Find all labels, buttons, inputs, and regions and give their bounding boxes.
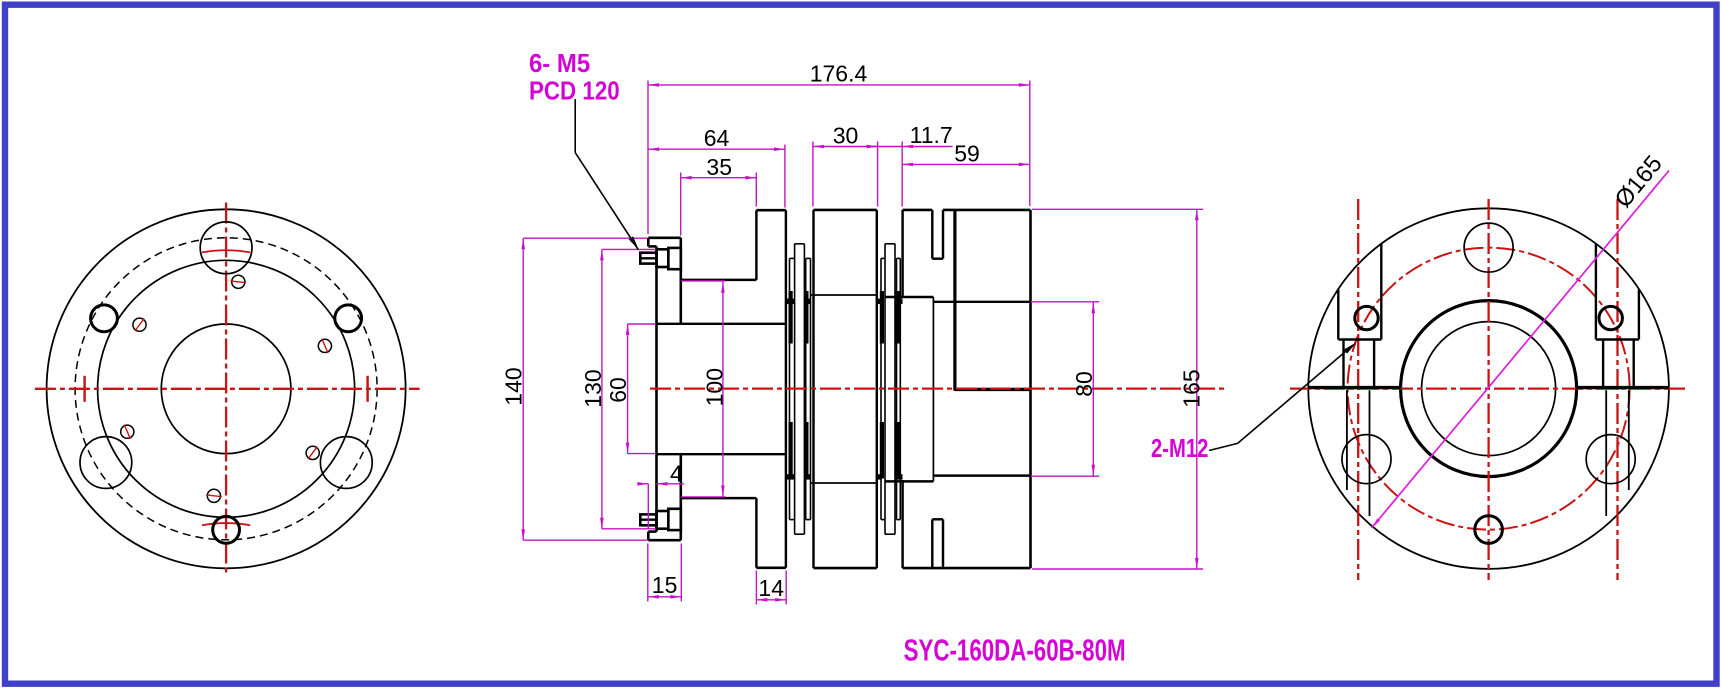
- left view: clearance hole at lower-right: [320, 437, 372, 489]
- callout 6-M5: leader arrowhead: [629, 236, 639, 250]
- middle view: flange right edge lower: [679, 454, 682, 540]
- middle view: left hub body left edge upper: [755, 210, 757, 280]
- middle view: right hub top edge right of slot: [943, 209, 1031, 212]
- left view: red vertical centerline: [225, 203, 227, 576]
- dim 130: arrows: [600, 249, 604, 260]
- left view: red bolt-circle arc at top hole: [202, 250, 250, 252]
- dim 140: bottom extension line: [523, 539, 647, 541]
- middle view: red centerline: [650, 387, 1225, 389]
- right view: red bolt circle: [1348, 248, 1630, 530]
- middle view: right hub bold line at centerline: [955, 388, 1031, 391]
- svg-text:SYC-160DA-60B-80M: SYC-160DA-60B-80M: [904, 633, 1126, 667]
- dim 130: bottom extension line: [602, 528, 656, 530]
- right view: red vertical centerline left: [1357, 199, 1359, 580]
- callout 2-M12: leader tail: [1209, 443, 1238, 450]
- dim 176.4: arrows: [648, 83, 659, 87]
- middle view: right hub bottom slot left wall: [931, 519, 933, 568]
- left view: bore circle: [161, 324, 291, 454]
- middle view: screw notch step bottom: [648, 530, 656, 533]
- middle view: spacer upper step line: [811, 294, 877, 296]
- left view: M5 screw hole at 204 deg: [121, 425, 134, 438]
- svg-text:35: 35: [706, 154, 732, 180]
- dim 80: bottom extension line: [1031, 475, 1099, 477]
- middle view: top M5 screw head slot: [640, 257, 656, 259]
- middle view: right hub top edge left of slot: [903, 209, 933, 212]
- middle view: disc pack 1 strips: [790, 244, 811, 534]
- dim 100: bottom extension line: [681, 496, 726, 498]
- svg-text:4: 4: [670, 461, 683, 487]
- dim 165: arrows: [1195, 209, 1199, 220]
- middle view: right hub bottom slot top: [932, 518, 943, 520]
- left view: red horizontal centerline: [35, 388, 420, 390]
- dim 14: left extension line: [755, 571, 757, 605]
- right view: bore circle: [1422, 322, 1556, 456]
- middle view: flange left edge: [655, 246, 658, 531]
- dim 15: arrows: [648, 595, 659, 599]
- dim 176.4: left extension line: [647, 81, 649, 235]
- dim 60: bottom extension line: [628, 453, 656, 455]
- dim 15: right extension line: [680, 544, 682, 602]
- middle view: right hub top slot right wall: [942, 210, 944, 259]
- right view: hub circle (bold): [1401, 301, 1577, 477]
- middle view: left hub body left edge lower: [755, 498, 757, 568]
- dim 30: left extension line: [812, 142, 814, 207]
- middle view: boss bottom edge (dia 100): [681, 497, 757, 499]
- dim 176.4: dimension line: [648, 84, 1030, 86]
- right view: tapped hole bottom (bold): [1475, 516, 1503, 544]
- middle view: disc pack 2 bolt sections: [877, 299, 881, 304]
- middle view: top M5 screw head: [640, 253, 656, 264]
- left view: tapped hole at left (bold): [91, 305, 118, 332]
- dim 11.7: dimension line with outside arrows: [867, 146, 953, 148]
- svg-text:100: 100: [701, 368, 727, 406]
- right view: right slot drill hole lines below slit: [1628, 390, 1630, 490]
- middle view: top M5 screw body: [668, 248, 681, 269]
- middle view: disc pack 1 clamped bands (bold): [788, 291, 792, 344]
- dim 140: dimension line: [522, 238, 524, 540]
- right view: right clamp slit (bold): [1576, 386, 1669, 389]
- dim 35: left extension line: [680, 173, 682, 236]
- dim 35: dimension line: [681, 177, 757, 179]
- middle view: flange lip left edge bottom: [647, 532, 650, 541]
- right view: red vertical centerline right: [1616, 199, 1618, 580]
- dim 165: bottom extension line: [1032, 568, 1203, 570]
- right view: right slot outline: [1596, 244, 1639, 386]
- right view: outer circle (flange OD): [1308, 208, 1669, 569]
- dim 35: arrows: [681, 176, 692, 180]
- dim 140: top extension line: [523, 237, 647, 239]
- middle view: center spacer left edge: [812, 210, 814, 568]
- middle view: center spacer right edge: [876, 210, 878, 568]
- dim 4: extension line: [647, 484, 649, 529]
- middle view: right hub bore bottom line (dia 80): [933, 474, 1030, 476]
- svg-text:80: 80: [1071, 371, 1097, 397]
- middle view: right hub bore top line (dia 80): [933, 301, 1030, 303]
- left view: outer circle (hub OD): [47, 209, 406, 568]
- left view: M5 screw hole at 264 deg: [207, 489, 220, 502]
- right view: clearance hole lower-right: [1586, 435, 1635, 484]
- left view: red bolt-circle arc at bottom hole: [202, 523, 250, 525]
- left view: clearance hole at top: [200, 222, 252, 274]
- dim 64: arrows: [648, 147, 659, 151]
- left view: M5 screw hole at 144 deg: [133, 318, 146, 331]
- left view: M5 screw hole at 84 deg: [232, 275, 245, 288]
- dim 100: top extension line: [681, 280, 726, 282]
- middle view: disc pack 2 strips: [881, 244, 900, 534]
- middle view: spacer lower step line: [811, 482, 877, 484]
- middle view: disc pack 1 bolt sections: [786, 299, 794, 304]
- right view: clearance hole top: [1464, 223, 1513, 272]
- dim 165: top extension line: [1032, 208, 1203, 210]
- dim 30: dimension line: [813, 146, 878, 148]
- svg-text:64: 64: [704, 125, 730, 151]
- right view: M12 hole in left slot (bold): [1355, 306, 1378, 329]
- middle view: flange right edge upper: [679, 238, 682, 324]
- middle view: disc pack 2 clamped bands (bold): [880, 291, 884, 344]
- dim 30: right extension line: [877, 142, 879, 207]
- middle view: bottom M5 screw head slot: [640, 518, 656, 520]
- middle view: screw notch step top: [648, 245, 656, 248]
- middle view: right hub bottom edge: [903, 567, 1031, 570]
- svg-text:15: 15: [652, 572, 678, 598]
- right view: left slot outline: [1338, 244, 1381, 386]
- middle view: right hub bold clamp vertical: [953, 210, 956, 391]
- middle view: right hub pack-flange top line: [885, 296, 933, 298]
- dim 130: dimension line: [601, 249, 603, 528]
- dim 14: dimension line: [756, 599, 786, 601]
- diameter leader arrowhead: [1372, 518, 1380, 528]
- middle view: left hub body top edge: [756, 209, 786, 212]
- dim 59: dimension line: [902, 163, 1030, 165]
- svg-text:14: 14: [758, 575, 784, 601]
- dim 60: dimension line: [627, 324, 629, 454]
- callout 6-M5: leader diagonal segment: [575, 153, 638, 250]
- svg-text:140: 140: [501, 367, 527, 405]
- middle view: bottom M5 screw head: [640, 514, 656, 525]
- dim 176.4: right extension line: [1029, 81, 1031, 207]
- middle view: right hub left face lower: [901, 480, 903, 568]
- middle view: boss top edge (dia 100): [681, 279, 757, 281]
- left view: red thread slash at 264 deg: [206, 495, 222, 497]
- middle view: right hub left face upper: [901, 210, 903, 297]
- callout 2-M12: leader arrowhead: [1344, 342, 1357, 353]
- dim 60: arrows: [626, 324, 630, 335]
- left view: clearance hole at lower-left: [80, 437, 132, 489]
- callout 6-M5: leader vertical segment: [574, 99, 576, 153]
- middle view: bore bottom line (dia 60): [657, 453, 786, 455]
- left view: red thread slash at 204 deg: [124, 425, 130, 439]
- right view: left clamp slit (bold): [1308, 386, 1401, 389]
- svg-text:60: 60: [605, 377, 631, 403]
- dim 130: top extension line: [602, 248, 656, 250]
- svg-text:30: 30: [833, 123, 859, 149]
- left view: red thread slash at 24 deg: [322, 339, 328, 353]
- diameter leader line for 165: [1372, 171, 1669, 529]
- left view: M5 screw hole at 24 deg: [318, 339, 331, 352]
- left view: red tick at right bolt-circle quadrant: [366, 376, 368, 402]
- middle view: bottom M5 screw collar: [657, 511, 669, 529]
- dim 80: dimension line: [1092, 302, 1094, 475]
- right view: clearance hole lower-left: [1342, 435, 1391, 484]
- middle view: right hub bottom slot right wall: [942, 519, 944, 568]
- dim 35: right extension line: [755, 173, 757, 207]
- left view: tapped hole at right (bold): [335, 305, 362, 332]
- dim 4: right tail with arrow: [657, 483, 685, 485]
- dim 60: top extension line: [628, 323, 656, 325]
- svg-text:59: 59: [954, 141, 980, 167]
- left view: red thread slash at 144 deg: [135, 319, 144, 332]
- dim 64: right extension line: [784, 145, 786, 208]
- middle view: bore top line (dia 60): [657, 323, 786, 325]
- left view: red thread slash at 324 deg: [308, 447, 317, 460]
- middle view: center spacer top edge: [814, 209, 877, 212]
- right view: red vertical centerline middle: [1487, 199, 1489, 580]
- callout 2-M12: leader line: [1238, 346, 1352, 443]
- middle view: flange lip left edge top: [647, 238, 650, 247]
- svg-text:PCD 120: PCD 120: [529, 77, 620, 106]
- dim 14: arrows: [756, 598, 767, 602]
- dim 14: right extension line: [785, 571, 787, 605]
- dim 59: arrows: [902, 163, 913, 167]
- dim 11.7: right extension line: [901, 142, 903, 207]
- dim 15: left extension line: [647, 544, 649, 602]
- middle view: right hub step vertical: [932, 297, 934, 481]
- dim 165: dimension line: [1196, 209, 1198, 569]
- svg-text:2-M12: 2-M12: [1151, 434, 1208, 463]
- left view: tapped hole at bottom (bold): [213, 516, 240, 543]
- middle view: right hub top slot bottom: [932, 257, 943, 259]
- middle view: right hub pack-flange bottom line: [885, 480, 933, 482]
- middle view: left hub body bottom edge: [756, 566, 786, 569]
- left view: red thread slash at 84 deg: [231, 281, 247, 283]
- middle view: top M5 screw collar: [657, 249, 669, 267]
- middle view: bottom M5 screw body: [668, 509, 681, 530]
- dim 30: arrows: [813, 145, 824, 149]
- svg-text:165: 165: [1179, 369, 1205, 407]
- dim 15: dimension line: [648, 596, 682, 598]
- dim 140: arrows: [521, 238, 525, 249]
- svg-text:11.7: 11.7: [910, 122, 953, 148]
- dim 4: left tail with arrow: [638, 483, 649, 485]
- middle view: flange bottom edge: [648, 539, 681, 542]
- svg-text:176.4: 176.4: [810, 60, 868, 86]
- middle view: flange top edge: [648, 237, 681, 240]
- dim 80: top extension line: [1031, 301, 1099, 303]
- left view: flange circle: [98, 260, 355, 517]
- dim 80: arrows: [1092, 302, 1096, 313]
- middle view: right hub top slot left wall: [931, 210, 933, 259]
- middle view: left hub right face: [785, 210, 787, 568]
- right view: red horizontal centerline: [1290, 387, 1688, 389]
- dim 100: dimension line: [722, 282, 724, 497]
- left view: dashed circle: [75, 238, 377, 540]
- right view: M12 hole in right slot (bold): [1599, 306, 1622, 329]
- middle view: center spacer bottom edge: [814, 567, 877, 570]
- left view: red tick at left bolt-circle quadrant: [83, 376, 85, 402]
- dim 100: arrows: [721, 282, 725, 293]
- middle view: right hub right edge: [1029, 210, 1032, 568]
- right view: left slot drill hole lines below slit: [1346, 390, 1348, 490]
- svg-text:6- M5: 6- M5: [529, 49, 590, 78]
- left view: M5 screw hole at 324 deg: [306, 446, 319, 459]
- svg-text:130: 130: [580, 369, 606, 407]
- dim 64: dimension line: [648, 148, 785, 150]
